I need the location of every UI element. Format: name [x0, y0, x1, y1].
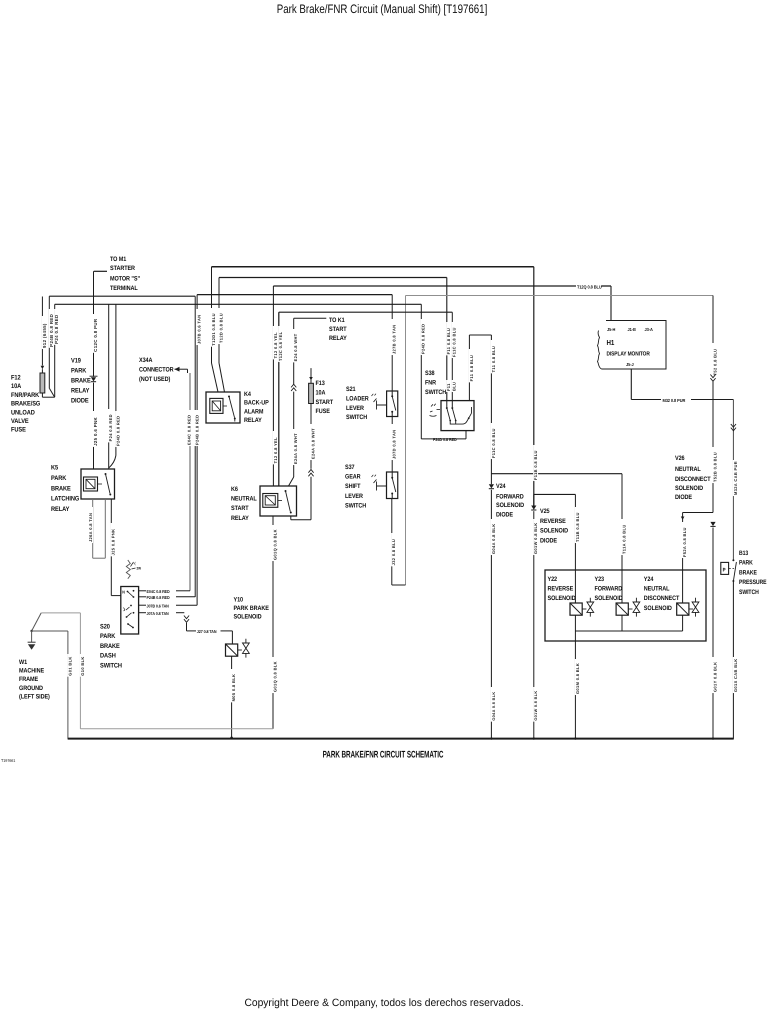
- svg-text:J25 0.6 PNK: J25 0.6 PNK: [93, 416, 98, 445]
- svg-text:J07B 0.6 TAN: J07B 0.6 TAN: [196, 315, 201, 344]
- svg-text:J5-J: J5-J: [626, 362, 634, 367]
- svg-text:BRAKE/SG: BRAKE/SG: [11, 401, 40, 408]
- svg-text:DISCONNECT: DISCONNECT: [675, 476, 711, 483]
- footer copyright: [244, 997, 523, 1009]
- wire J27B 0.8 TAN into S21: [392, 319, 397, 355]
- svg-text:T12Q 0.8 BLU: T12Q 0.8 BLU: [577, 284, 602, 289]
- svg-text:G01M 0.8 BLK: G01M 0.8 BLK: [575, 663, 580, 694]
- wire S38 jumper up and over to V24/Y23 feed: [469, 335, 492, 401]
- fuse F13 wire top: [309, 368, 313, 383]
- corner note T197661: [1, 758, 16, 763]
- wire label E04C 0.8 RED: [186, 410, 191, 446]
- wire J25 0.8 PNK K5 to S20: [111, 499, 121, 596]
- wire M05 0.8 BLK Y10 ground: [230, 656, 236, 739]
- svg-text:G04A 0.8 BLK: G04A 0.8 BLK: [492, 691, 496, 720]
- svg-text:P24B 0.8 RED: P24B 0.8 RED: [147, 595, 170, 600]
- wire solenoid common rail: [575, 615, 682, 631]
- diode V24 forward solenoid diode: [489, 484, 494, 489]
- svg-text:DIODE: DIODE: [675, 494, 693, 501]
- svg-text:G01Y 0.8 BLK: G01Y 0.8 BLK: [712, 662, 717, 692]
- svg-text:RELAY: RELAY: [244, 417, 262, 424]
- label Y10 PARK BRAKE SOLENOID: [234, 597, 270, 621]
- label Y22 REVERSE SOLENOID: [548, 576, 576, 602]
- relay K6 contact: [278, 490, 292, 514]
- svg-text:DIODE: DIODE: [71, 398, 89, 405]
- svg-text:G04A 0.8 BLK: G04A 0.8 BLK: [491, 524, 496, 555]
- svg-text:V26: V26: [675, 455, 685, 462]
- svg-text:RELAY: RELAY: [51, 506, 70, 513]
- wire S37 output U-turn to gray riser (J32): [391, 499, 405, 586]
- title text: [277, 2, 488, 16]
- label Y23 FORWARD SOLENOID: [595, 576, 623, 602]
- svg-text:TO M1: TO M1: [110, 256, 127, 263]
- svg-text:MACHINE: MACHINE: [19, 668, 45, 675]
- wire T12D1 down from bus T1 to V25: [533, 445, 538, 481]
- svg-text:M32A CAB PUR: M32A CAB PUR: [733, 461, 738, 495]
- svg-text:V25: V25: [540, 508, 550, 515]
- svg-text:S37: S37: [345, 464, 355, 471]
- svg-text:SOLENOID: SOLENOID: [548, 595, 576, 602]
- svg-text:B13: B13: [739, 550, 749, 557]
- wire label P24 0.8 RED riser: [54, 309, 59, 345]
- svg-text:VALVE: VALVE: [11, 418, 29, 425]
- label S21 LOADER LEVER SWITCH: [346, 386, 369, 421]
- wire P24 into K5 with P24D merge: [108, 304, 120, 469]
- label Y24 NEUTRAL DISCONNECT SOLENOID: [644, 576, 680, 612]
- svg-text:SOLENOID: SOLENOID: [496, 502, 524, 509]
- svg-text:F11 0.8 BLU: F11 0.8 BLU: [446, 328, 451, 355]
- svg-text:DIODE: DIODE: [540, 537, 558, 544]
- svg-text:G01Q 0.8 BLK: G01Q 0.8 BLK: [272, 529, 277, 560]
- svg-text:T12 0.8 YEL: T12 0.8 YEL: [273, 437, 278, 463]
- wire bus B (P24/P24D) fuse to S38 drop: [55, 304, 422, 439]
- wire K5 coil return loop J26A 0.8 TAN: [88, 499, 105, 558]
- wire F11C drop into S38: [452, 322, 457, 392]
- relay K5 box: [81, 469, 115, 499]
- label V24 FORWARD SOLENOID DIODE: [496, 483, 524, 519]
- svg-text:W1: W1: [19, 659, 28, 666]
- svg-text:SOLENOID: SOLENOID: [675, 485, 703, 492]
- svg-text:FORWARD: FORWARD: [595, 586, 623, 593]
- svg-text:DASH: DASH: [100, 653, 116, 660]
- pin J3-A: [645, 327, 654, 332]
- wire label P24B 0.8 RED by S20 riser: [195, 410, 200, 446]
- svg-text:FORWARD: FORWARD: [496, 494, 524, 501]
- wire G01W 0.8 BLK to ground bus: [533, 511, 538, 738]
- svg-text:F12: F12: [11, 375, 21, 382]
- wire J07A 0.8 TAN from S20: [139, 611, 185, 616]
- svg-text:J07B 0.6 TAN: J07B 0.6 TAN: [147, 603, 169, 608]
- svg-text:M32 0.8 PUR: M32 0.8 PUR: [663, 398, 687, 403]
- svg-text:BRAKE: BRAKE: [100, 643, 120, 650]
- svg-text:FNR/PARK: FNR/PARK: [11, 392, 39, 399]
- svg-text:J27B 0.8 TAN: J27B 0.8 TAN: [392, 325, 397, 354]
- svg-text:F11C 0.8 BLU: F11C 0.8 BLU: [452, 327, 457, 357]
- svg-text:S20: S20: [100, 624, 110, 631]
- wire branch to Y23 forward solenoid: [491, 474, 626, 603]
- svg-text:T11 0.8 BLU: T11 0.8 BLU: [491, 346, 496, 373]
- switch S37 lever actuator: [372, 475, 387, 491]
- wire F11C 0.8 BLU down from jumper: [491, 335, 496, 484]
- relay K5 contact: [98, 473, 112, 496]
- wire branch to Y24 neutral disconnect solenoid (F52A BLU): [681, 513, 713, 604]
- svg-text:BRAKE: BRAKE: [71, 378, 91, 385]
- wire P24B 0.8 RED from S20: [139, 595, 196, 600]
- svg-text:F11C 0.8 BLU: F11C 0.8 BLU: [491, 428, 496, 458]
- wire 912 (6455) supply drop to F12: [42, 297, 47, 366]
- svg-text:NEUTRAL: NEUTRAL: [644, 586, 670, 593]
- solenoid Y10 coil and valve: [226, 639, 250, 658]
- relay K4 contact: [223, 396, 236, 422]
- svg-text:FUSE: FUSE: [316, 408, 331, 415]
- relay K4 coil: [210, 398, 223, 413]
- svg-text:J32 0.8 BLU: J32 0.8 BLU: [391, 539, 396, 566]
- svg-text:T12D 0.8 BLU: T12D 0.8 BLU: [218, 313, 223, 343]
- svg-text:K5: K5: [51, 465, 58, 472]
- svg-text:PRESSURE: PRESSURE: [739, 579, 767, 586]
- svg-text:BRAKE: BRAKE: [51, 485, 71, 492]
- svg-text:GEAR: GEAR: [345, 474, 361, 481]
- wire E04C 0.8 RED X34A down to S20: [189, 373, 191, 591]
- svg-text:DIODE: DIODE: [496, 512, 514, 519]
- svg-text:10A: 10A: [316, 389, 326, 396]
- svg-text:H1: H1: [607, 338, 615, 347]
- svg-text:J07A 0.8 TAN: J07A 0.8 TAN: [147, 611, 169, 616]
- switch S38 box: [441, 401, 474, 431]
- svg-text:FNR: FNR: [425, 380, 436, 387]
- svg-text:F11: F11: [446, 383, 451, 391]
- ground W1 machine frame ground symbol: [28, 613, 42, 650]
- connector chevrons on B13 wire: [731, 424, 736, 431]
- relay K5 coil: [84, 477, 98, 491]
- svg-text:G01W 0.8 BLK: G01W 0.8 BLK: [534, 690, 538, 720]
- node TO M1 STARTER MOTOR S TERMINAL: [94, 256, 140, 292]
- svg-text:S38: S38: [425, 370, 435, 377]
- svg-text:TERMINAL: TERMINAL: [110, 285, 138, 292]
- pin J1-B: [628, 327, 636, 332]
- svg-text:2W: 2W: [137, 567, 142, 571]
- svg-text:PARK BRAKE: PARK BRAKE: [234, 605, 270, 612]
- svg-text:T12D1 0.8 BLU: T12D1 0.8 BLU: [211, 313, 216, 346]
- wire fuse output junction joining P24B and P24 risers: [42, 389, 54, 398]
- svg-text:START: START: [329, 326, 347, 333]
- wire bus J07B/J27B from S20 up over to S21: [197, 295, 392, 606]
- wire G04A 0.8 BLK to ground bus: [491, 490, 496, 738]
- svg-text:P24 0.8 RED: P24 0.8 RED: [108, 414, 113, 441]
- wire F11 0.8 BLU drop into S38: [446, 322, 451, 392]
- wire bus gray S37 signal to right side drop at x713: [406, 296, 714, 586]
- svg-text:C12C 0.8 PUR: C12C 0.8 PUR: [93, 318, 98, 352]
- wire branch to Y22 reverse solenoid: [534, 494, 580, 603]
- svg-text:T12 0.8 YEL: T12 0.8 YEL: [273, 332, 278, 358]
- svg-text:E04C 0.8 RED: E04C 0.8 RED: [186, 415, 191, 445]
- svg-text:CONNECTOR: CONNECTOR: [139, 367, 174, 374]
- svg-text:FUSE: FUSE: [11, 427, 26, 434]
- svg-text:J27 0.8 TAN: J27 0.8 TAN: [197, 629, 217, 634]
- relay K4 box: [206, 392, 240, 423]
- label F13 10A START FUSE: [316, 380, 334, 415]
- svg-text:SWITCH: SWITCH: [100, 662, 122, 669]
- svg-text:SWITCH: SWITCH: [739, 589, 759, 596]
- switch S21 lever actuator: [372, 394, 387, 410]
- wire bus C to S38 second drop: [279, 312, 453, 486]
- diode V26 neutral disconnect solenoid diode: [710, 522, 715, 527]
- svg-text:FRAME: FRAME: [19, 676, 39, 683]
- svg-text:GROUND: GROUND: [19, 685, 43, 692]
- fuse F12 symbol: [40, 369, 45, 397]
- label S20 PARK BRAKE DASH SWITCH: [100, 624, 122, 670]
- label K5 PARK BRAKE LATCHING RELAY: [51, 465, 79, 514]
- svg-text:(LEFT SIDE): (LEFT SIDE): [19, 693, 50, 700]
- svg-text:G10 BLK: G10 BLK: [80, 656, 85, 675]
- svg-text:PARK: PARK: [100, 633, 116, 640]
- wire T52 0.8 BLU from gray bus down: [712, 296, 717, 377]
- wire bus A (P24B) fuse to S20: [49, 296, 195, 597]
- svg-text:K6: K6: [231, 486, 238, 493]
- wire bus T2 (T12D) from K4 to S38 drop: [219, 278, 447, 401]
- svg-text:RELAY: RELAY: [329, 335, 347, 342]
- label S37 GEAR SHIFT LEVER SWITCH: [345, 464, 367, 509]
- svg-text:E24 0.8 WHT: E24 0.8 WHT: [293, 333, 298, 361]
- relay K6 box: [260, 486, 297, 516]
- svg-text:J25 0.8 PNK: J25 0.8 PNK: [111, 529, 116, 556]
- arrowhead into F12 fuse: [41, 366, 45, 369]
- pressure switch B13 contact: [732, 559, 736, 582]
- switch S21 box and contacts: [387, 391, 398, 417]
- svg-text:P: P: [723, 568, 726, 574]
- svg-text:P24D 0.8 RED: P24D 0.8 RED: [433, 437, 457, 442]
- svg-text:UNLOAD: UNLOAD: [11, 409, 35, 416]
- svg-text:START: START: [316, 399, 334, 406]
- solenoid Y23 coil and valve: [616, 598, 640, 617]
- fuse F13 symbol: [309, 383, 314, 403]
- pressure switch B13 P box: [721, 562, 734, 574]
- svg-text:RELAY: RELAY: [231, 515, 249, 522]
- svg-text:N: N: [122, 590, 125, 595]
- svg-text:J26A 0.8 TAN: J26A 0.8 TAN: [88, 513, 93, 542]
- svg-text:SWITCH: SWITCH: [346, 414, 368, 421]
- label V19 PARK BRAKE RELAY DIODE: [71, 358, 91, 405]
- switch S38 internal contacts: [446, 401, 472, 425]
- caption PARK BRAKE/FNR CIRCUIT SCHEMATIC: [323, 749, 444, 760]
- svg-text:P24D 0.8 RED: P24D 0.8 RED: [115, 416, 120, 446]
- svg-text:10A: 10A: [11, 383, 21, 390]
- pin J5-J: [626, 362, 634, 367]
- solenoid assembly box: [545, 570, 706, 641]
- svg-text:ALARM: ALARM: [244, 408, 263, 415]
- svg-text:START: START: [231, 505, 249, 512]
- connector chevrons on J07A wire: [184, 616, 189, 623]
- svg-text:F11B 0.8 BLU: F11B 0.8 BLU: [533, 450, 538, 480]
- label S38 FNR SWITCH: [425, 370, 447, 396]
- label V25 REVERSE SOLENOID DIODE: [540, 508, 568, 544]
- svg-text:T11B 0.8 BLU: T11B 0.8 BLU: [575, 512, 580, 542]
- svg-text:REVERSE: REVERSE: [548, 586, 574, 593]
- svg-text:(NOT USED): (NOT USED): [139, 376, 170, 383]
- svg-text:Y22: Y22: [548, 576, 558, 583]
- diode V19 park brake relay diode symbol: [90, 376, 98, 382]
- svg-text:-(: -(: [134, 562, 137, 566]
- svg-text:RELAY: RELAY: [71, 388, 90, 395]
- wire J07B 0.6 TAN from S20: [139, 603, 198, 608]
- svg-text:NEUTRAL: NEUTRAL: [675, 466, 701, 473]
- svg-text:E24A 0.8 WHT: E24A 0.8 WHT: [293, 433, 298, 464]
- diode V25 reverse solenoid diode: [531, 494, 536, 510]
- svg-text:G01Q 0.8 BLK: G01Q 0.8 BLK: [272, 661, 277, 692]
- wire label T12Q 0.8 BLU: [577, 284, 602, 289]
- switch S20 internal contacts: [122, 590, 134, 629]
- pin J5-H: [607, 327, 615, 332]
- svg-text:Y10: Y10: [234, 597, 244, 604]
- wire T12D1 0.8 BLU drop to K4: [211, 267, 218, 392]
- svg-text:SOLENOID: SOLENOID: [595, 595, 623, 602]
- svg-text:TO K1: TO K1: [329, 317, 345, 324]
- switch S20 box: [121, 587, 139, 635]
- svg-text:Y24: Y24: [644, 576, 654, 583]
- svg-text:G01W 0.8 BLK: G01W 0.8 BLK: [533, 522, 538, 554]
- svg-text:Park Brake/FNR Circuit (Manual: Park Brake/FNR Circuit (Manual Shift) [T…: [277, 2, 488, 16]
- wire T12 0.8 YEL drop to K6 coil: [273, 286, 278, 486]
- svg-text:T12C 0.8 YEL: T12C 0.8 YEL: [278, 331, 283, 361]
- wire P24D 0.8 RED to S38 bottom: [421, 319, 466, 439]
- wire main ground bus: [68, 737, 734, 739]
- connector chevrons on x713 wire: [710, 375, 715, 382]
- wire E24A 0.8 WHT down to K6: [289, 329, 299, 486]
- wire G01X CAB BLK to ground bus corner: [733, 581, 738, 739]
- label B13 PARK BRAKE PRESSURE SWITCH: [739, 550, 767, 596]
- wire E04C 0.8 RED from S20: [139, 589, 190, 594]
- wire G01 BLK ground run: [32, 631, 73, 739]
- label K4 BACK-UP ALARM RELAY: [244, 391, 269, 424]
- svg-text:P24B 0.8 RED: P24B 0.8 RED: [195, 415, 200, 445]
- wire bus T3 (T12 / T12Q) K6 to H1 display: [273, 286, 611, 321]
- svg-text:X34A: X34A: [139, 357, 153, 364]
- svg-text:SHIFT: SHIFT: [345, 483, 361, 490]
- switch S20 actuator spring: [126, 560, 141, 579]
- svg-text:E04C 0.8 RED: E04C 0.8 RED: [147, 589, 170, 594]
- wire F13-K6 lower segment: [291, 477, 311, 520]
- label H1 DISPLAY MONITOR: [607, 338, 651, 358]
- svg-text:P24B 0.8 RED: P24B 0.8 RED: [49, 314, 54, 347]
- svg-text:SOLENOID: SOLENOID: [644, 605, 672, 612]
- switch S38 lever actuator dashes: [430, 404, 441, 416]
- svg-text:T52 0.8 BLU: T52 0.8 BLU: [712, 349, 717, 376]
- switch S37 box and contacts: [387, 472, 398, 499]
- wire G01M 0.8 BLK solenoid ground: [575, 631, 580, 738]
- label F12 10A FNR/PARK BRAKE/SG UNLOAD VALVE FUSE: [11, 375, 40, 434]
- wire gray return bus: [80, 728, 273, 730]
- svg-text:J5-H: J5-H: [607, 327, 615, 332]
- svg-text:K4: K4: [244, 391, 251, 398]
- wire J27 0.8 TAN to Y10: [187, 623, 233, 644]
- svg-text:LEVER: LEVER: [345, 493, 363, 500]
- svg-text:PARK BRAKE/FNR CIRCUIT SCHEMAT: PARK BRAKE/FNR CIRCUIT SCHEMATIC: [323, 749, 444, 760]
- svg-text:LEVER: LEVER: [346, 405, 364, 412]
- svg-text:J3-A: J3-A: [645, 327, 654, 332]
- solenoid Y24 coil and valve: [677, 598, 699, 617]
- label W1 MACHINE FRAME GROUND (LEFT SIDE): [19, 659, 50, 700]
- wire bus T1 (T12D1) from K4 to V25/Y22 drop: [212, 267, 534, 506]
- svg-text:Y23: Y23: [595, 576, 605, 583]
- wire M1 starter to V19 to K5 coil (C12C PUR): [93, 271, 95, 469]
- connector X34A (not used) with arrow: [139, 357, 188, 383]
- svg-text:T52B 0.8 BLU: T52B 0.8 BLU: [712, 452, 717, 482]
- svg-text:STARTER: STARTER: [110, 265, 135, 272]
- wire label P24D 0.8 RED inline: [433, 437, 457, 442]
- svg-text:BACK-UP: BACK-UP: [244, 400, 269, 407]
- svg-text:LOADER: LOADER: [346, 395, 369, 402]
- svg-text:PARK: PARK: [51, 475, 67, 482]
- svg-text:BRAKE: BRAKE: [739, 569, 757, 576]
- svg-text:SOLENOID: SOLENOID: [234, 614, 262, 621]
- wire T12C 0.8 YEL drop to K6: [278, 312, 283, 486]
- svg-text:P24 0.8 RED: P24 0.8 RED: [54, 314, 59, 343]
- wire F13 to K6 contact (E24A WHT): [310, 404, 315, 469]
- wire G01Y 0.8 BLK to ground bus: [712, 528, 717, 738]
- svg-text:BLU: BLU: [452, 382, 457, 391]
- wire label J07B 0.6 TAN riser: [196, 309, 201, 345]
- solenoid Y22 coil and valve: [570, 598, 594, 617]
- svg-text:T197661: T197661: [1, 758, 16, 763]
- svg-text:NEUTRAL: NEUTRAL: [231, 496, 257, 503]
- svg-text:REVERSE: REVERSE: [540, 518, 566, 525]
- wire x713 middle segment: [712, 382, 717, 513]
- connector chevrons on F13-K6 wire: [308, 470, 313, 477]
- svg-text:G01X CAB BLK: G01X CAB BLK: [733, 658, 738, 692]
- wire G10 BLK ground run: [41, 613, 85, 729]
- wire M32A 0.8 PUR down to B13: [733, 400, 738, 561]
- relay K6 coil: [263, 494, 278, 508]
- svg-text:V19: V19: [71, 358, 81, 365]
- wire K6 coil ground G01Q 0.8 BLK: [272, 516, 277, 729]
- wire label M32 0.8 PUR: [663, 398, 687, 403]
- label K6 NEUTRAL START RELAY: [231, 486, 257, 522]
- wire label C12C 0.8 PUR: [93, 314, 98, 353]
- svg-text:SOLENOID: SOLENOID: [540, 528, 568, 535]
- svg-text:S21: S21: [346, 386, 356, 393]
- svg-text:F13: F13: [316, 380, 326, 387]
- svg-text:G01 BLK: G01 BLK: [67, 656, 72, 675]
- svg-text:F11 0.8 BLU: F11 0.8 BLU: [469, 355, 474, 382]
- svg-text:P24D 0.8 RED: P24D 0.8 RED: [421, 324, 426, 354]
- svg-text:M05 0.8 BLK: M05 0.8 BLK: [231, 674, 236, 702]
- svg-text:J1-B: J1-B: [628, 327, 636, 332]
- wire S21 to S37 (J07D TAN): [392, 417, 397, 473]
- svg-text:LATCHING: LATCHING: [51, 496, 79, 503]
- svg-text:MOTOR "S": MOTOR "S": [110, 276, 140, 283]
- svg-text:J07D 0.8 TAN: J07D 0.8 TAN: [392, 430, 397, 459]
- svg-text:Copyright Deere & Company, tod: Copyright Deere & Company, todos los der…: [244, 997, 523, 1009]
- display monitor H1 box: [598, 321, 667, 370]
- svg-text:E24A 0.8 WHT: E24A 0.8 WHT: [310, 428, 315, 459]
- wire label P24B 0.8 RED riser: [49, 309, 54, 348]
- svg-text:DISPLAY MONITOR: DISPLAY MONITOR: [607, 351, 651, 358]
- svg-text:V24: V24: [496, 483, 506, 490]
- svg-text:F52A 0.8 BLU: F52A 0.8 BLU: [682, 527, 687, 557]
- wire T12D 0.8 BLU drop to K4: [218, 278, 224, 393]
- svg-text:SWITCH: SWITCH: [345, 502, 367, 509]
- label V26 NEUTRAL DISCONNECT SOLENOID DIODE: [675, 455, 711, 501]
- svg-text:SWITCH: SWITCH: [425, 389, 447, 396]
- wire H1 J5-J to M32 0.8 PUR run: [631, 369, 733, 400]
- svg-text:912 (6455): 912 (6455): [42, 323, 47, 348]
- wire label J25 0.6 PNK on V19-K5 wire: [93, 411, 98, 447]
- node TO K1 START RELAY stub: [294, 317, 348, 384]
- svg-text:T11A 0.8 BLU: T11A 0.8 BLU: [621, 524, 626, 554]
- connector chevrons on E24A wire: [291, 384, 296, 391]
- svg-text:PARK: PARK: [71, 368, 87, 375]
- svg-text:PARK: PARK: [739, 560, 753, 567]
